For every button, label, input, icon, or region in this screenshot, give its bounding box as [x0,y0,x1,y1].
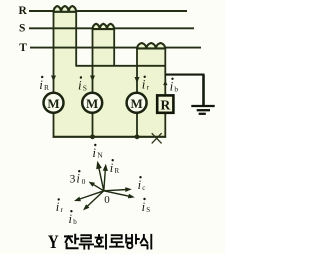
vector i_N [96,161,104,191]
vector label i_b [69,210,78,226]
wire: M3 to bottom bus [136,113,138,138]
caption char 잔 (jan) [65,235,78,249]
vector i_c [104,187,132,192]
caption char 회 (hoe) [95,235,106,249]
caption char 회 circle [97,239,102,244]
svg-text:i: i [39,77,43,92]
svg-text:i: i [92,145,96,160]
wire: ground branch vertical [202,75,205,106]
caption char 방 (bang) [126,235,139,244]
wire: phase T drop to M3 [136,48,138,93]
junction dot at M2 bus connection [90,134,95,139]
wire: CT3 right leg to relay R [164,48,166,96]
caption char 로 (ro) [110,235,123,247]
svg-text:M: M [47,96,59,111]
svg-text:R: R [19,5,28,17]
shaded CT loop area (phase S column) [93,28,115,66]
current arrow i_S (down) [90,76,95,82]
vector label 3i_0 [70,170,86,186]
wire: relay R to bottom bus [164,113,166,138]
shaded CT loop area (phase T column) [137,48,165,66]
relay/resistor box R [157,95,173,112]
svg-text:R: R [161,98,171,113]
wire: M2 to bottom bus [92,113,94,138]
label i_R [39,76,49,92]
label i_b [170,78,179,94]
phase line T [30,47,201,49]
wire: CT2 right leg [113,28,115,66]
shaded CT loop area (phase R column) [54,11,77,66]
vector i_r [74,191,104,201]
label i_S [78,76,87,92]
vector i_S [104,191,135,199]
caption char 식 (sik) [141,235,152,249]
vector 3i_0 [89,182,104,191]
wire: M1 to bottom bus [53,113,55,138]
svg-text:M: M [130,96,142,111]
svg-text:3: 3 [70,174,76,186]
svg-text:i: i [138,178,142,192]
svg-text:N: N [97,151,103,160]
svg-text:b: b [73,218,77,226]
svg-text:i: i [142,77,146,92]
label i_r [142,76,150,92]
phase line S [29,27,194,29]
svg-text:0: 0 [104,194,110,206]
current transformer CT1 (phase R) [54,6,77,12]
svg-text:c: c [142,184,145,192]
bottom residual bus wire [53,136,166,138]
mid bus wire [75,65,166,67]
fault X mark on bus [152,133,162,143]
svg-text:b: b [174,84,178,93]
caption char 방 circle [127,243,132,248]
phase line R [29,10,187,12]
wire: phase S drop to M2 [92,28,94,93]
svg-text:i: i [76,172,80,186]
svg-text:i: i [142,200,146,214]
svg-text:i: i [170,79,174,94]
svg-text:i: i [56,200,60,214]
wire: phase R drop to M1 [53,11,55,93]
vector label i_N [92,144,103,160]
svg-text:i: i [110,161,114,175]
current transformer CT3 (phase T) [137,43,165,48]
ground symbol [191,106,214,114]
current transformer CT2 (phase S) [93,24,115,29]
svg-text:R: R [115,167,120,175]
vector label i_c [138,176,146,192]
current arrow i_R (down) [51,76,56,82]
motor/meter M1 [44,93,64,113]
svg-text:S: S [19,23,25,35]
caption char 류 (ryu) [80,235,93,249]
current arrow i_r (down) [135,77,140,83]
shaded secondary circuit area [54,66,166,137]
svg-text:M: M [86,96,98,111]
wire: ground branch horizontal [165,74,204,76]
current arrow i_b (up) [163,81,167,86]
motor/meter M2 [82,93,102,113]
junction dot at M3 bus connection [135,134,140,139]
wire: CT1 right leg [75,11,77,66]
svg-text:0: 0 [82,177,86,186]
svg-text:S: S [83,84,87,93]
vector i_b [83,191,104,211]
vector label i_R [110,159,120,175]
svg-text:i: i [69,212,73,226]
vector label i_r [56,198,64,214]
vector i_R [103,164,108,191]
vector label i_S [142,198,151,214]
svg-text:T: T [19,42,27,54]
svg-text:Y: Y [48,232,59,253]
motor/meter M3 [127,93,147,113]
svg-text:i: i [78,77,82,92]
svg-text:S: S [146,206,150,214]
svg-text:R: R [44,83,49,92]
